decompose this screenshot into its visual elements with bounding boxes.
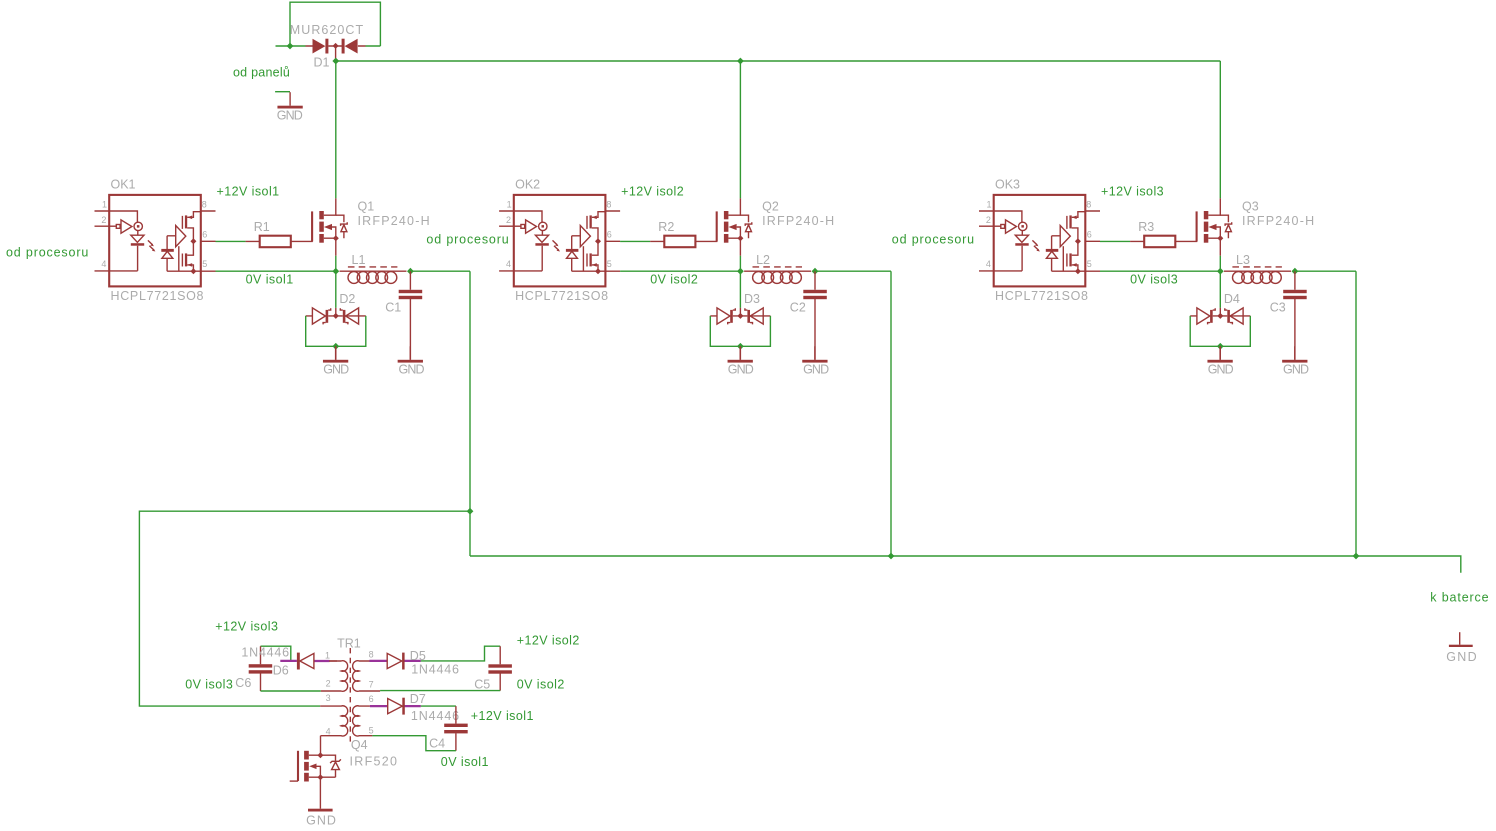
ground symbol (Q4) [306,809,336,828]
svg-text:3: 3 [326,693,331,703]
wire: TR1 pin2 to C6 bottom [261,690,321,692]
capacitor C2 [803,271,827,360]
transformer TR1 winding 1-2 [321,661,348,692]
svg-text:5: 5 [369,726,374,736]
svg-text:L1: L1 [352,253,366,267]
svg-text:HCPL7721SO8: HCPL7721SO8 [995,289,1088,303]
wire: 0V isol2 rail [620,256,891,308]
svg-text:IRFP240-H: IRFP240-H [1242,214,1314,228]
svg-text:0V isol2: 0V isol2 [650,273,698,287]
capacitor C1 [399,271,423,360]
svg-text:GND: GND [803,362,829,376]
svg-text:MUR620CT: MUR620CT [290,23,364,37]
svg-text:1N4446: 1N4446 [411,709,459,723]
svg-text:+12V isol3: +12V isol3 [1101,184,1164,198]
diode D3 (transil pair) [710,308,770,360]
diode D6 1N4446 [280,653,337,670]
wire: OK1 pin6 to R1 [216,240,246,242]
resistor R1 [246,236,313,248]
ground symbol (D4) [1207,346,1233,376]
svg-text:k baterce: k baterce [1430,591,1488,605]
svg-text:R2: R2 [658,220,674,234]
transistor Q1 IRFP240-H [312,198,347,255]
svg-text:8: 8 [369,650,374,660]
svg-text:od panelů: od panelů [233,66,290,80]
transformer TR1 winding 3-4 [320,706,348,736]
svg-text:OK3: OK3 [995,178,1020,192]
svg-text:GND: GND [323,362,349,376]
wire: 0V isol1 rail [216,256,471,308]
junction: branch to TR1 primary [467,508,474,515]
ground symbol (D2) [323,346,349,376]
svg-text:D4: D4 [1224,292,1240,306]
junction: Q2 drain branch [737,58,744,65]
svg-text:0V isol2: 0V isol2 [517,678,565,692]
capacitor C3 [1283,271,1307,360]
wire: C6 top to D6 cathode [261,646,291,661]
svg-text:GND: GND [399,362,425,376]
transistor Q4 IRF520 [290,751,341,782]
svg-text:GND: GND [1283,362,1309,376]
transformer TR1 winding 8-7 [353,661,380,692]
svg-text:GND: GND [1208,362,1234,376]
svg-text:+12V isol3: +12V isol3 [215,620,278,634]
svg-text:7: 7 [369,679,374,689]
svg-text:0V isol3: 0V isol3 [185,677,233,691]
svg-text:D6: D6 [273,663,289,677]
ground symbol (k baterce) [1446,632,1477,664]
wire: 0V isol3 drop to battery bus [1355,271,1357,556]
svg-text:Q1: Q1 [358,200,375,214]
svg-text:C4: C4 [429,737,445,751]
junction: Q2 source / L2 / D3 node [737,268,744,275]
diode D2 (transil pair) [306,308,366,360]
ground symbol (C2) [802,346,829,376]
svg-text:1N4446: 1N4446 [241,646,289,660]
optocoupler OK3 HCPL7721SO8 [979,195,1100,287]
transistor Q2 IRFP240-H [717,198,752,255]
svg-text:2: 2 [326,679,331,689]
wire: TR1 pin7 to C5 bottom [380,690,500,692]
svg-text:HCPL7721SO8: HCPL7721SO8 [515,289,608,303]
svg-text:od procesoru: od procesoru [6,245,88,259]
ground symbol (C3) [1282,346,1309,376]
diode D7 1N4446 [370,698,421,715]
wire: Q4 source to GND [319,777,321,809]
svg-text:OK2: OK2 [515,178,540,192]
svg-text:1N4446: 1N4446 [411,662,459,676]
svg-text:+12V isol2: +12V isol2 [517,633,580,647]
svg-text:+12V isol2: +12V isol2 [621,184,684,198]
svg-text:C1: C1 [385,300,401,314]
svg-text:GND: GND [277,109,303,123]
ground symbol (D3) [728,346,754,376]
wire: input net "od panelu" at D1 anode [276,45,306,47]
ground symbol (C1) [398,346,425,376]
wire: TR1 pin4 to Q4 drain [320,736,322,756]
diode D5 1N4446 [369,653,420,670]
svg-text:C6: C6 [235,676,251,690]
svg-text:D2: D2 [339,292,355,306]
inductor L3 [1224,267,1291,284]
svg-text:OK1: OK1 [111,178,136,192]
junction: D1 left node [287,43,294,50]
svg-text:IRFP240-H: IRFP240-H [762,214,834,228]
junction: Q1 source / L1 / D2 node [332,268,339,275]
svg-text:0V isol1: 0V isol1 [441,755,489,769]
svg-text:GND: GND [728,362,754,376]
svg-text:L3: L3 [1236,253,1250,267]
junction: L1 / C1 node [407,268,414,275]
diode D1 MUR620CT (dual, common center) [306,39,366,60]
inductor L2 [744,267,811,284]
optocoupler OK1 HCPL7721SO8 [95,195,216,287]
svg-text:Q2: Q2 [762,200,779,214]
svg-text:TR1: TR1 [337,636,361,650]
svg-text:R3: R3 [1138,220,1154,234]
svg-text:IRF520: IRF520 [350,754,398,768]
svg-text:od procesoru: od procesoru [892,232,974,246]
wire: D7 to C4 top [421,705,456,707]
svg-text:GND: GND [306,814,336,828]
optocoupler OK2 HCPL7721SO8 [499,195,620,287]
svg-text:C5: C5 [474,677,490,691]
transistor Q3 IRFP240-H [1197,198,1232,255]
capacitor C5 [488,646,512,690]
svg-text:Q4: Q4 [351,738,368,752]
resistor R3 [1130,236,1197,248]
wire: 0V isol2 drop to battery bus [890,271,892,556]
ground symbol (top, od panelu) [277,92,303,122]
inductor L1 [340,267,407,284]
svg-text:HCPL7721SO8: HCPL7721SO8 [111,289,204,303]
wire: parallel loop over D1 [290,2,380,46]
svg-text:IRFP240-H: IRFP240-H [358,214,430,228]
transformer TR1 core [349,648,351,744]
svg-text:D3: D3 [744,292,760,306]
wire: battery bus [470,556,1461,573]
svg-text:L2: L2 [756,253,770,267]
wire: 0V isol1 drop to battery bus [469,271,471,556]
capacitor C6 [249,646,273,691]
junction: D1 output node [332,58,339,65]
junction: Q3 source / L3 / D4 node [1217,268,1224,275]
wire: OK2 pin6 to R2 [620,240,650,242]
svg-text:1: 1 [325,650,330,660]
wire: OK3 pin6 to R3 [1100,240,1130,242]
svg-text:R1: R1 [254,220,270,234]
svg-text:od procesoru: od procesoru [426,232,508,246]
svg-text:0V isol1: 0V isol1 [246,273,294,287]
junction: bus / 0V isol2 [888,553,895,560]
svg-text:+12V isol1: +12V isol1 [471,709,534,723]
svg-text:4: 4 [326,727,331,737]
junction: L3 / C3 node [1292,268,1299,275]
wire: top +V rail to Q1 Q2 Q3 drains [336,61,1221,198]
capacitor C4 [444,706,468,751]
wire: 0V isol3 rail [1100,256,1356,308]
wire: branch to TR1 pin3 [139,511,470,706]
junction: bus / 0V isol3 [1353,553,1360,560]
transformer TR1 winding 6-5 [353,706,373,736]
svg-text:0V isol3: 0V isol3 [1130,273,1178,287]
svg-text:6: 6 [369,694,374,704]
diode D4 (transil pair) [1190,308,1250,360]
svg-text:C3: C3 [1270,300,1286,314]
wire: D5 to C5 top [421,646,500,661]
svg-text:+12V isol1: +12V isol1 [217,184,280,198]
junction: L2 / C2 node [812,268,819,275]
svg-text:D7: D7 [410,692,426,706]
svg-text:D1: D1 [314,56,330,70]
svg-text:GND: GND [1446,650,1477,664]
wire: stub to GND symbol (top) [275,91,290,93]
svg-text:Q3: Q3 [1242,200,1259,214]
wire: TR1 pin5 to C4 bottom [372,736,456,751]
resistor R2 [650,236,717,248]
svg-text:C2: C2 [790,300,806,314]
